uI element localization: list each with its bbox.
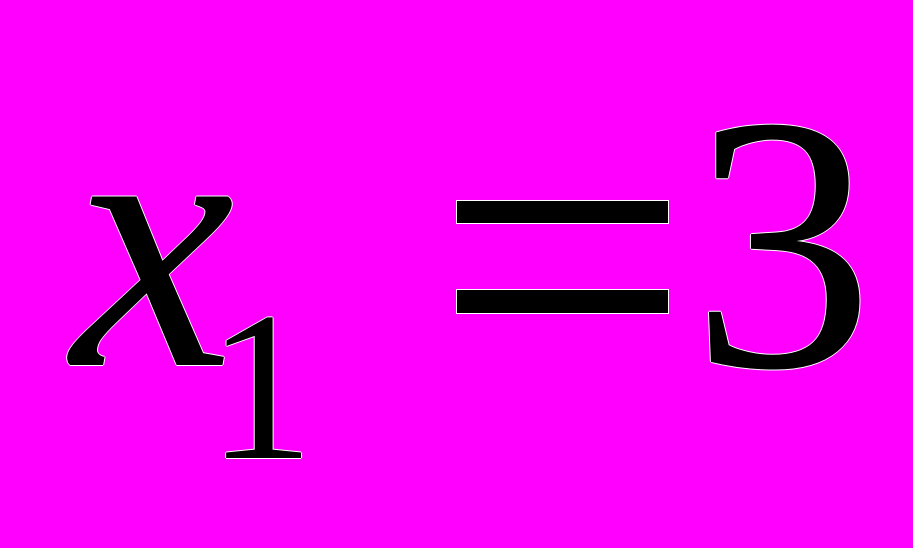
variable x: [72, 59, 235, 426]
equals sign top bar: [457, 201, 668, 223]
numeral 3: [692, 61, 874, 426]
equals sign bottom bar: [457, 290, 668, 313]
subscript 1: [207, 281, 314, 494]
